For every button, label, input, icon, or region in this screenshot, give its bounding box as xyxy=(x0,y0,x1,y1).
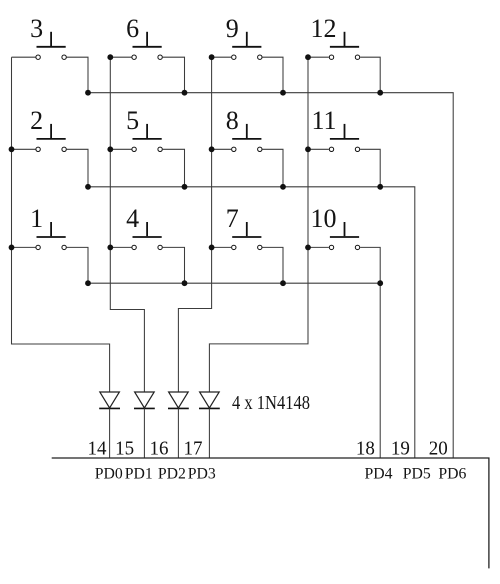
pushbutton switch 2 xyxy=(36,124,66,152)
junction: button 7 left terminal on column 3 line xyxy=(209,245,215,251)
wire: connector bus line with bend down at right xyxy=(52,458,489,568)
wire: left terminal of button 7 to column line xyxy=(212,246,232,248)
wire: left terminal of button 10 to column line xyxy=(308,246,329,248)
pushbutton switch 4 xyxy=(132,222,162,250)
svg-text:PD2: PD2 xyxy=(158,465,186,482)
junction: button 5 right wire on row 2 line xyxy=(182,184,188,190)
svg-text:15: 15 xyxy=(115,437,134,459)
junction: button 2 left terminal on column 1 line xyxy=(9,146,15,152)
pushbutton switch 10 xyxy=(329,222,359,250)
pushbutton switch 5 xyxy=(132,124,162,152)
diode D1 (1N4148) xyxy=(99,392,120,408)
svg-text:PD4: PD4 xyxy=(365,465,393,482)
junction: button 12 left terminal on column 4 line xyxy=(305,54,311,60)
diode D4 (1N4148) xyxy=(199,392,220,408)
wire: right terminal of button 10 down to row line xyxy=(360,247,380,283)
wire: left terminal of button 8 to column line xyxy=(212,148,232,150)
pushbutton switch 3 xyxy=(36,32,66,60)
junction: button 1 left terminal on column 1 line xyxy=(9,245,15,251)
svg-text:7: 7 xyxy=(226,204,239,233)
wire: row 3 net down to pin 18 xyxy=(379,283,381,458)
wire: right terminal of button 1 down to row line xyxy=(67,247,88,283)
wire: column 3 net down to diode D3 xyxy=(178,57,211,392)
pushbutton switch 7 xyxy=(232,222,262,250)
junction: button 12 right wire on row 1 line xyxy=(377,90,383,96)
junction: button 11 left terminal on column 4 line xyxy=(305,146,311,152)
svg-text:4: 4 xyxy=(126,204,139,233)
svg-text:19: 19 xyxy=(391,437,410,459)
junction: button 11 right wire on row 2 line xyxy=(377,184,383,190)
pushbutton switch 9 xyxy=(232,32,262,60)
wire: row 3 net (buttons 1,4,7,10) xyxy=(88,282,380,284)
junction: button 8 right wire on row 2 line xyxy=(280,184,286,190)
svg-text:PD3: PD3 xyxy=(188,465,216,482)
svg-text:11: 11 xyxy=(311,106,336,135)
wire: row 1 net (buttons 3,6,9,12) to pin 20 xyxy=(88,93,453,458)
wire: left terminal of button 5 to column line xyxy=(110,148,131,150)
wire: right terminal of button 6 down to row line xyxy=(163,57,185,92)
junction: button 6 left terminal on column 2 line xyxy=(107,54,113,60)
wire: left terminal of button 1 to column line xyxy=(12,246,36,248)
wire: right terminal of button 8 down to row line xyxy=(262,149,283,187)
svg-text:18: 18 xyxy=(356,437,375,459)
svg-text:1: 1 xyxy=(30,204,43,233)
wire: right terminal of button 9 down to row line xyxy=(262,57,283,92)
svg-text:PD0: PD0 xyxy=(95,465,123,482)
junction: button 1 right wire on row 3 line xyxy=(85,280,91,286)
wire: right terminal of button 3 down to row line xyxy=(67,57,88,92)
wire: diode D1 cathode to pin 14 xyxy=(109,408,111,458)
wire: left terminal of button 9 to column line xyxy=(212,56,232,58)
junction: button 3 right wire on row 1 line xyxy=(85,90,91,96)
svg-text:14: 14 xyxy=(88,437,107,459)
junction: button 4 right wire on row 3 line xyxy=(182,280,188,286)
svg-text:PD1: PD1 xyxy=(125,465,153,482)
wire: left terminal of button 12 to column line xyxy=(308,56,329,58)
wire: diode D2 cathode to pin 15 xyxy=(143,408,145,458)
svg-text:12: 12 xyxy=(311,14,337,43)
svg-text:6: 6 xyxy=(126,14,139,43)
junction: button 9 right wire on row 1 line xyxy=(280,90,286,96)
wire: right terminal of button 12 down to row line xyxy=(360,57,380,92)
svg-text:3: 3 xyxy=(30,14,43,43)
wire: left terminal of button 2 to column line xyxy=(12,148,36,150)
svg-text:PD6: PD6 xyxy=(438,465,466,482)
svg-text:8: 8 xyxy=(226,106,239,135)
wire: right terminal of button 11 down to row line xyxy=(360,149,380,187)
wire: row 2 net (buttons 2,5,8,11) to pin 19 xyxy=(88,187,415,458)
svg-text:9: 9 xyxy=(226,14,239,43)
svg-text:10: 10 xyxy=(311,204,337,233)
wire: diode D3 cathode to pin 16 xyxy=(177,408,179,458)
svg-text:5: 5 xyxy=(126,106,139,135)
svg-text:2: 2 xyxy=(30,106,43,135)
svg-text:17: 17 xyxy=(184,437,203,459)
svg-text:PD5: PD5 xyxy=(403,465,431,482)
wire: left terminal of button 6 to column line xyxy=(110,56,131,58)
pushbutton switch 6 xyxy=(132,32,162,60)
junction: button 9 left terminal on column 3 line xyxy=(209,54,215,60)
pushbutton switch 8 xyxy=(232,124,262,152)
junction: button 8 left terminal on column 3 line xyxy=(209,146,215,152)
wire: left terminal of button 4 to column line xyxy=(110,246,131,248)
diode D3 (1N4148) xyxy=(168,392,189,408)
junction: button 10 left terminal on column 4 line xyxy=(305,245,311,251)
junction: button 2 right wire on row 2 line xyxy=(85,184,91,190)
junction: button 4 left terminal on column 2 line xyxy=(107,245,113,251)
wire: left terminal of button 11 to column line xyxy=(308,148,329,150)
wire: column 2 net down to diode D2 xyxy=(110,57,144,392)
wire: right terminal of button 7 down to row line xyxy=(262,247,283,283)
wire: right terminal of button 5 down to row line xyxy=(163,149,185,187)
svg-text:20: 20 xyxy=(429,437,448,459)
wire: diode D4 cathode to pin 17 xyxy=(208,408,210,458)
wire: column 4 net down to diode D4 xyxy=(209,57,308,392)
pushbutton switch 1 xyxy=(36,222,66,250)
wire: column 1 net down to diode D1 xyxy=(12,57,110,392)
diode D2 (1N4148) xyxy=(134,392,155,408)
wire: right terminal of button 2 down to row line xyxy=(67,149,88,187)
wire: right terminal of button 4 down to row line xyxy=(163,247,185,283)
wire: left terminal of button 3 to column line xyxy=(12,56,36,58)
junction: button 7 right wire on row 3 line xyxy=(280,280,286,286)
pushbutton switch 12 xyxy=(329,32,359,60)
svg-text:16: 16 xyxy=(150,437,169,459)
junction: button 10 right wire on row 3 line xyxy=(377,280,383,286)
junction: button 5 left terminal on column 2 line xyxy=(107,146,113,152)
svg-text:4 x 1N4148: 4 x 1N4148 xyxy=(232,393,310,414)
junction: button 6 right wire on row 1 line xyxy=(182,90,188,96)
pushbutton switch 11 xyxy=(329,124,359,152)
